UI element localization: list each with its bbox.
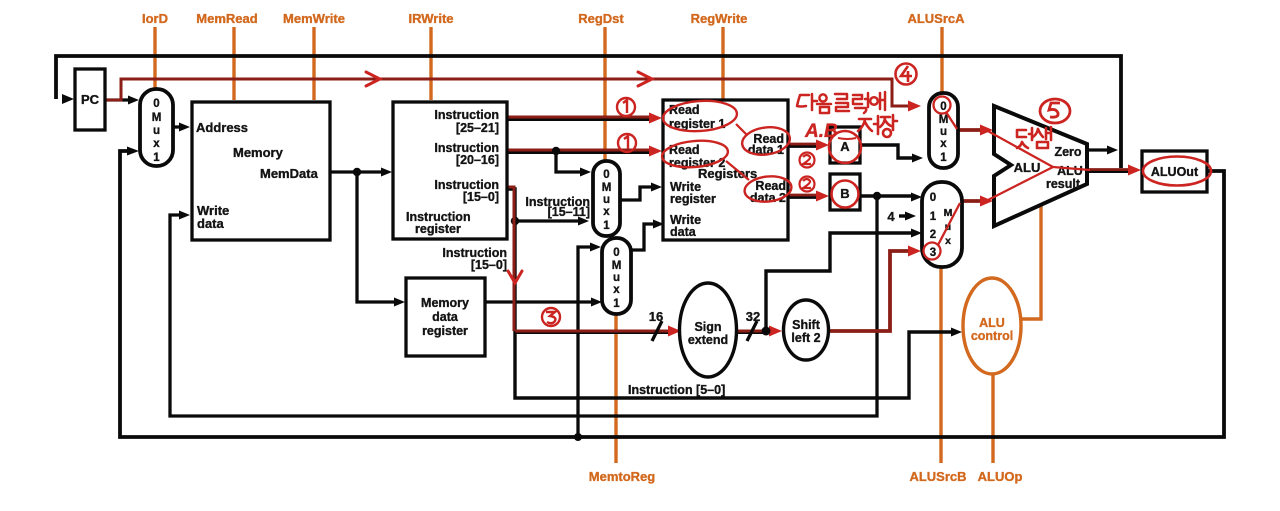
sign extend unit (680, 283, 737, 377)
svg-text:B: B (840, 186, 849, 201)
svg-text:RegDst: RegDst (578, 11, 624, 26)
annotation: underline stroke after A.B (838, 138, 856, 139)
svg-text:0: 0 (930, 192, 936, 204)
annotation: red circle around mux3 of ALUSrcB with stroke to output (924, 203, 961, 260)
control signal IRWrite (408, 11, 453, 100)
svg-text:extend: extend (688, 333, 728, 347)
mux RegDst (0Mux1) (593, 161, 620, 236)
annotation: red circle around mux0 of ALUSrcA with stroke to 1 (934, 97, 958, 130)
svg-text:data: data (197, 216, 225, 231)
svg-text:Shift: Shift (792, 318, 821, 332)
svg-text:x: x (945, 235, 951, 247)
svg-text:ALUOut: ALUOut (1151, 165, 1199, 179)
svg-text:0: 0 (153, 98, 159, 110)
svg-text:MemtoReg: MemtoReg (589, 469, 656, 484)
wire: MemData down to Memory data register (357, 172, 395, 302)
svg-text:[15–11]: [15–11] (548, 205, 590, 219)
wire: Instruction[15-0] down and Instruction[5-0] to ALU control (505, 189, 951, 398)
register file (Registers) (663, 100, 788, 240)
럭 (853, 95, 862, 104)
wire: MemtoReg mux output to Registers Write data (631, 224, 654, 250)
junction: ALUOut feedback to MemtoReg mux (574, 433, 582, 441)
덧 (1017, 130, 1026, 137)
annotation: red diagonals inside ALU (addition) (986, 130, 1090, 201)
클 (835, 94, 847, 99)
annotation: red ellipse around Read register 1 (662, 98, 738, 133)
junction: Instruction[15-11] branch (511, 217, 519, 225)
junction: MemData branch (353, 168, 361, 176)
svg-text:3: 3 (930, 247, 936, 259)
svg-text:4: 4 (887, 209, 895, 224)
control signal RegDst (578, 11, 624, 160)
svg-text:ALUSrcA: ALUSrcA (907, 11, 965, 26)
red highlighted vertical Instruction[15-0] (505, 187, 514, 331)
annotation: connector RR2-RD2 (726, 161, 749, 180)
svg-text:0: 0 (613, 247, 619, 259)
wire: MemData to Instruction register (330, 170, 382, 173)
svg-text:A: A (840, 139, 850, 154)
svg-text:1: 1 (940, 152, 947, 164)
wire: Zero output (1087, 148, 1108, 151)
control signal ALUSrcB (909, 268, 966, 484)
svg-text:ALUSrcB: ALUSrcB (909, 469, 966, 484)
wire: RegDst mux output to Write register (620, 187, 652, 200)
svg-text:Address: Address (196, 120, 248, 135)
svg-text:[15–0]: [15–0] (471, 258, 507, 272)
svg-text:x: x (940, 138, 947, 150)
wire: ALU-control to ALU (orange) (1022, 204, 1041, 319)
annotation: circled 5 above ALU (1040, 99, 1070, 123)
annotation: 덧셈 (addition) (1017, 127, 1051, 148)
control signal ALUOp (978, 374, 1023, 484)
svg-text:PC: PC (81, 92, 100, 107)
svg-text:1: 1 (603, 220, 610, 232)
annotation: Korean handwriting (next clock, store into A,B) (797, 92, 885, 113)
wire: PC to IorD mux input0 (105, 98, 130, 101)
svg-text:M: M (602, 182, 612, 194)
svg-text:A.B: A.B (804, 121, 838, 142)
svg-text:IorD: IorD (142, 11, 168, 26)
svg-text:register: register (670, 192, 716, 206)
svg-text:x: x (613, 284, 620, 296)
에 (870, 97, 878, 105)
ALU control unit (orange) (963, 278, 1021, 374)
control signal MemWrite (283, 11, 345, 100)
svg-text:data: data (432, 310, 459, 324)
음 (819, 94, 826, 101)
svg-text:RegWrite: RegWrite (691, 11, 748, 26)
svg-text:2: 2 (930, 229, 936, 241)
svg-text:1: 1 (153, 152, 160, 164)
register B (830, 174, 860, 210)
장 (880, 117, 891, 127)
svg-text:32: 32 (746, 309, 760, 324)
svg-text:left 2: left 2 (791, 331, 820, 345)
control signal RegWrite (691, 11, 748, 99)
mux ALUSrcA (0Mux1) (929, 93, 958, 168)
svg-text:ALU: ALU (1057, 164, 1083, 178)
memory unit (192, 102, 330, 240)
svg-text:x: x (603, 206, 610, 218)
wire: top PC fetch loop (ALU result to PC) (56, 56, 1121, 168)
svg-text:M: M (612, 260, 622, 272)
svg-text:register: register (422, 324, 468, 338)
svg-text:M: M (939, 114, 949, 126)
svg-text:Instruction [5–0]: Instruction [5–0] (628, 383, 725, 397)
wire: MDR output to MemtoReg mux input1 (485, 300, 592, 303)
svg-text:register: register (415, 222, 461, 236)
wire: feedback up to MemtoReg mux input0 (578, 247, 591, 437)
wire: sign-extend row (Instruction[15-0] to Sign extend) (515, 330, 670, 334)
annotation: circled 4 on PC-ALU path (896, 64, 917, 85)
svg-text:x: x (153, 138, 160, 150)
wire: A output to ALUSrcA mux input1 (860, 145, 913, 158)
annotation: red circle around A (829, 131, 861, 163)
label Instruction[15-0] below IR (442, 246, 507, 272)
junction: sign extend output branch (762, 327, 771, 336)
svg-text:u: u (603, 194, 610, 206)
junction: Instruction[20-16] branch to RegDst mux (552, 147, 560, 155)
wire: Read data 2 to B (788, 195, 820, 199)
svg-text:1: 1 (613, 298, 620, 310)
wire: B output to ALUSrcB mux input0 (860, 194, 912, 197)
svg-text:Memory: Memory (233, 145, 284, 160)
annotation: circled 1 on Instruction[20-16] (618, 134, 636, 152)
mux MemtoReg (0Mux1) (602, 238, 631, 314)
svg-text:u: u (153, 125, 160, 137)
svg-text:data: data (670, 225, 697, 239)
wire: sign extend branch to ALUSrcB mux input2 (766, 233, 912, 331)
control signal MemtoReg (589, 315, 656, 484)
wire: Instruction[20-16] to Read register 2 (505, 150, 652, 154)
svg-text:MemWrite: MemWrite (283, 11, 345, 26)
annotation: circled 1 on Instruction[25-21] (617, 98, 635, 116)
wire: Instruction[15-11] to RegDst mux input1 (515, 219, 579, 222)
annotation: circled 2 on Read data 2 path (800, 177, 815, 192)
wire: ALUOut feedback to IorD mux input1 (bottom outer loop) (120, 151, 1224, 437)
control signal ALUSrcA (907, 11, 965, 92)
annotation: red ellipse around Read data 2 (743, 174, 792, 204)
다 (797, 95, 809, 107)
wire: ALU result to ALUOut (1087, 169, 1133, 173)
annotation: circled 3 on sign extend path (542, 308, 560, 326)
register PC (75, 69, 105, 130)
shift left 2 unit (784, 300, 829, 360)
svg-text:1: 1 (930, 211, 937, 223)
wire: Read data 1 to A (788, 144, 820, 148)
annotation: connector RR1-RD1 (736, 124, 747, 135)
annotation: red circle around B (832, 181, 859, 208)
ALU (994, 106, 1087, 226)
wire: B feedback to Memory Write data (inner loop) (170, 196, 877, 416)
annotation: red ellipse around Read data 1 (740, 124, 791, 157)
셈 (1033, 129, 1043, 137)
wire: red PC highlight to ALUSrcA mux input0 (106, 79, 911, 106)
svg-text:MemRead: MemRead (196, 11, 257, 26)
instruction register (393, 102, 507, 239)
annotation: 저장 (store) (858, 115, 897, 137)
wire: Sign extend to Shift left 2 (737, 330, 772, 334)
저 (858, 119, 872, 131)
svg-text:Memory: Memory (421, 296, 469, 310)
svg-text:control: control (971, 329, 1013, 343)
svg-text:ALU: ALU (979, 316, 1005, 330)
svg-text:ALUOp: ALUOp (978, 469, 1023, 484)
wire: Shift left 2 output to ALUSrcB mux input3 (red) (828, 251, 911, 331)
svg-text:M: M (152, 112, 162, 124)
mux ALUSrcB (0123 Mux) (922, 182, 962, 267)
svg-text:16: 16 (649, 309, 663, 324)
svg-text:Zero: Zero (1054, 145, 1081, 159)
annotation: red chevron arrows on top red wire (366, 72, 652, 283)
label Instruction[15-11] (525, 195, 590, 219)
svg-text:result: result (1046, 177, 1081, 191)
svg-text:u: u (940, 126, 947, 138)
svg-text:u: u (613, 272, 620, 284)
svg-text:IRWrite: IRWrite (408, 11, 453, 26)
svg-text:Sign: Sign (694, 320, 721, 334)
svg-text:[25–21]: [25–21] (456, 121, 499, 135)
svg-text:MemData: MemData (260, 166, 319, 181)
annotation: circled 2 on Read data 1 path (800, 153, 815, 168)
svg-text:[20–16]: [20–16] (456, 153, 499, 167)
annotation: red ellipse around ALUOut (1143, 157, 1211, 186)
svg-text:ALU: ALU (1014, 160, 1041, 175)
wire: IorD mux output to Memory Address (173, 125, 180, 128)
control signal IorD (142, 11, 168, 88)
annotation: red ellipse around Read register 2 (661, 138, 729, 170)
svg-text:0: 0 (603, 169, 609, 181)
slash 32-bit (747, 321, 757, 341)
svg-text:[15–0]: [15–0] (463, 190, 499, 204)
junction: B output (873, 192, 881, 200)
slash 16-bit (652, 321, 662, 341)
mux IorD (0Mux1) (140, 89, 173, 166)
wire: ALUSrcA mux output to ALU (958, 128, 984, 132)
svg-text:Instruction: Instruction (434, 108, 499, 122)
memory data register (406, 278, 485, 356)
wire: branch down to RegDst mux input0 (556, 151, 581, 172)
svg-text:Read: Read (669, 103, 700, 117)
wire: ALUSrcB mux output to ALU (962, 199, 984, 203)
svg-text:0: 0 (940, 101, 946, 113)
control signal MemRead (196, 11, 257, 100)
register ALUOut (1142, 151, 1207, 192)
register A (830, 127, 860, 163)
wire: Instruction[25-21] to Read register 1 (505, 117, 652, 121)
